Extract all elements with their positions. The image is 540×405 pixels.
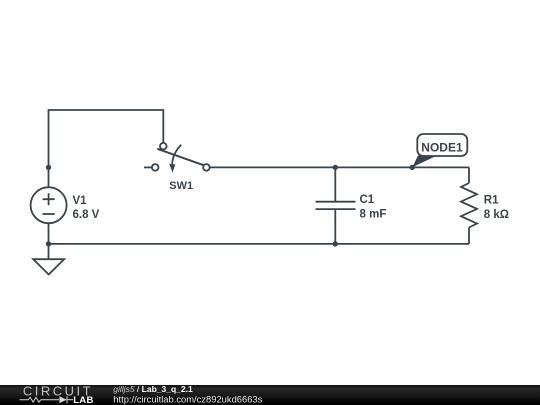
wire main rail from switch to resistor — [210, 166, 469, 168]
wire V1 bottom to ground — [48, 223, 50, 259]
wire top-left from V1 up and across to switch — [49, 110, 164, 187]
switch actuation arc — [172, 145, 181, 165]
svg-text:SW1: SW1 — [169, 180, 193, 192]
footer bar — [0, 385, 540, 405]
switch blade — [157, 149, 204, 166]
C1 bottom plate — [316, 208, 356, 210]
logo diode triangle — [59, 396, 66, 403]
NODE1 pointer wedge — [412, 156, 437, 168]
svg-text:NODE1: NODE1 — [421, 140, 463, 154]
svg-text:http://circuitlab.com/cz892ukd: http://circuitlab.com/cz892ukd6663s — [113, 393, 262, 404]
NODE1 callout box — [417, 134, 467, 156]
V1 circle body — [31, 187, 67, 223]
switch SW1 — [144, 143, 210, 171]
resistor R1 zigzag — [461, 183, 477, 228]
logo squiggle resistor+diode — [20, 396, 74, 403]
SW1 open throw terminal circle (left) — [152, 164, 159, 171]
junction dot cap top — [333, 165, 338, 170]
wire bottom rail — [49, 243, 470, 245]
ground — [33, 259, 64, 274]
SW1 closed throw terminal circle (right) — [203, 164, 210, 171]
svg-text:6.8 V: 6.8 V — [73, 209, 100, 221]
capacitor C1 plates — [316, 202, 356, 209]
wire resistor leads — [468, 167, 470, 244]
node junction dot at V1 bottom — [46, 241, 51, 246]
svg-text:V1: V1 — [73, 195, 88, 207]
svg-text:LAB: LAB — [73, 395, 93, 405]
C1 top plate — [316, 201, 356, 203]
svg-text:8 kΩ: 8 kΩ — [484, 209, 509, 221]
svg-text:8 mF: 8 mF — [360, 209, 387, 221]
node junction dot at V1 top — [46, 165, 51, 170]
svg-text:R1: R1 — [484, 194, 499, 206]
wire capacitor leads — [334, 167, 336, 244]
V1 plus sign — [43, 193, 55, 205]
NODE1 junction dot — [410, 165, 415, 170]
SW1 pole terminal circle (top) — [160, 143, 167, 150]
switch arrowhead — [169, 164, 175, 173]
wire left stub of switch — [144, 166, 152, 168]
V1 minus sign — [43, 213, 55, 215]
voltage source V1 — [31, 187, 67, 223]
svg-text:C1: C1 — [360, 194, 375, 206]
junction dot cap bottom — [333, 241, 338, 246]
